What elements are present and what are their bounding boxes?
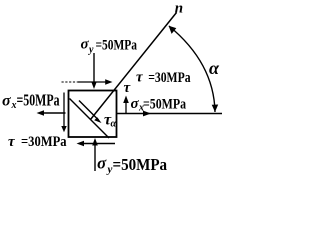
- svg-text:σx=50MPa: σx=50MPa: [2, 91, 60, 112]
- svg-text:n: n: [175, 1, 183, 17]
- svg-text:σy=50MPa: σy=50MPa: [97, 154, 168, 176]
- svg-text:τ=30MPa: τ=30MPa: [8, 134, 67, 150]
- svg-text:τα: τα: [104, 111, 117, 129]
- svg-text:τ: τ: [124, 80, 132, 96]
- svg-text:α: α: [209, 58, 220, 78]
- svg-text:τ=30MPa: τ=30MPa: [136, 70, 191, 86]
- svg-text:σy=50MPa: σy=50MPa: [81, 36, 138, 55]
- svg-text:σx=50MPa: σx=50MPa: [131, 96, 187, 114]
